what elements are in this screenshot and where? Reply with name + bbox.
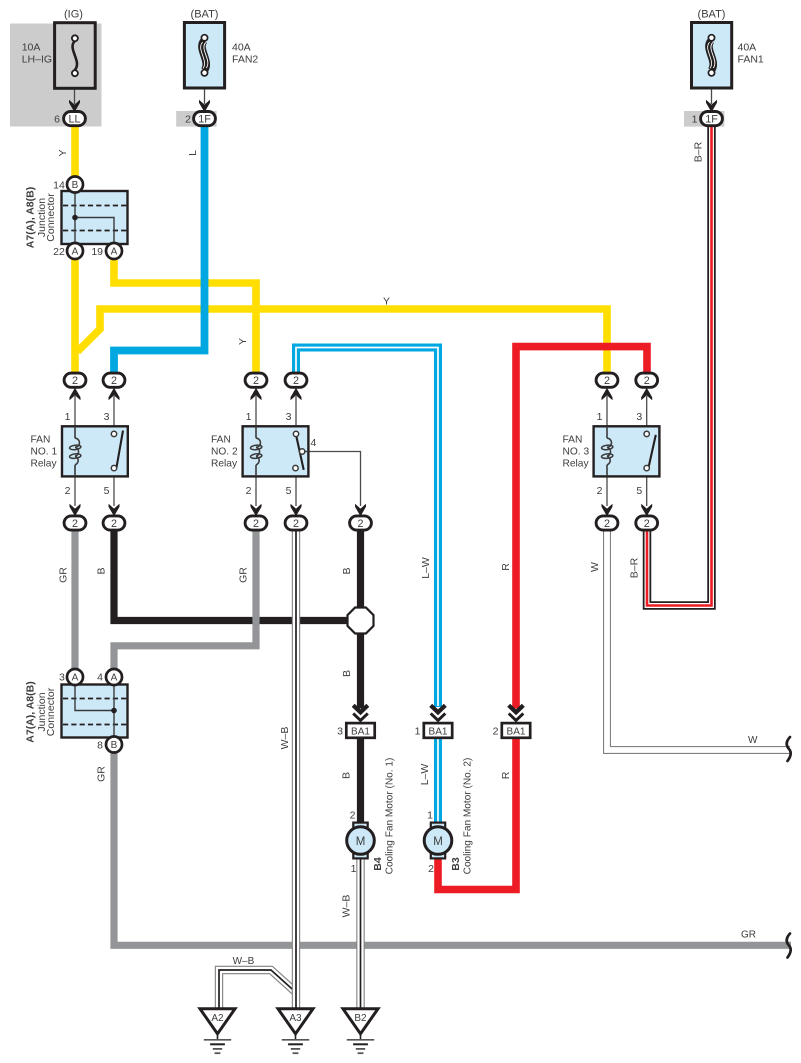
svg-text:BA1: BA1 bbox=[351, 727, 370, 738]
svg-text:B: B bbox=[72, 180, 79, 191]
svg-text:GR: GR bbox=[741, 930, 756, 941]
svg-text:40A: 40A bbox=[738, 42, 757, 54]
svg-text:Connector: Connector bbox=[45, 687, 57, 736]
svg-text:14: 14 bbox=[53, 180, 65, 192]
svg-text:1F: 1F bbox=[198, 113, 211, 125]
svg-text:W–B: W–B bbox=[341, 895, 353, 918]
svg-text:R: R bbox=[500, 563, 512, 571]
svg-text:5: 5 bbox=[286, 485, 292, 497]
svg-text:B2: B2 bbox=[354, 1013, 367, 1024]
svg-text:GR: GR bbox=[58, 567, 70, 583]
svg-text:5: 5 bbox=[104, 485, 110, 497]
svg-text:NO. 2: NO. 2 bbox=[211, 447, 238, 458]
svg-text:FAN: FAN bbox=[563, 435, 583, 446]
svg-text:1: 1 bbox=[65, 411, 71, 423]
svg-text:19: 19 bbox=[91, 246, 103, 258]
svg-text:W–B: W–B bbox=[279, 727, 291, 750]
svg-text:2: 2 bbox=[604, 375, 610, 387]
svg-text:M: M bbox=[433, 836, 443, 848]
svg-text:L–W: L–W bbox=[419, 764, 431, 786]
svg-text:2: 2 bbox=[65, 485, 71, 497]
svg-text:Cooling Fan Motor (No. 1): Cooling Fan Motor (No. 1) bbox=[385, 758, 396, 875]
svg-text:2: 2 bbox=[111, 375, 117, 387]
svg-text:A7(A), A8(B): A7(A), A8(B) bbox=[25, 187, 37, 248]
svg-text:W: W bbox=[589, 562, 601, 572]
svg-text:4: 4 bbox=[311, 437, 317, 449]
svg-text:FAN2: FAN2 bbox=[232, 53, 258, 65]
svg-text:1F: 1F bbox=[705, 113, 718, 125]
svg-text:A2: A2 bbox=[211, 1013, 224, 1024]
svg-text:BA1: BA1 bbox=[507, 727, 526, 738]
svg-text:A: A bbox=[111, 673, 118, 684]
svg-text:GR: GR bbox=[96, 766, 108, 782]
svg-text:Relay: Relay bbox=[31, 459, 58, 470]
svg-text:NO. 1: NO. 1 bbox=[31, 447, 58, 458]
svg-text:B: B bbox=[341, 772, 353, 779]
svg-text:2: 2 bbox=[72, 518, 78, 530]
svg-text:B3: B3 bbox=[450, 857, 462, 871]
svg-text:NO. 3: NO. 3 bbox=[563, 447, 590, 458]
svg-text:6: 6 bbox=[54, 114, 60, 126]
svg-text:2: 2 bbox=[644, 375, 650, 387]
svg-text:A7(A), A8(B): A7(A), A8(B) bbox=[25, 681, 37, 742]
svg-text:8: 8 bbox=[97, 740, 103, 752]
svg-text:A: A bbox=[72, 673, 79, 684]
svg-text:GR: GR bbox=[238, 567, 250, 583]
svg-text:3: 3 bbox=[59, 672, 65, 684]
svg-text:Connector: Connector bbox=[45, 193, 57, 242]
svg-text:1: 1 bbox=[597, 411, 603, 423]
svg-text:A3: A3 bbox=[289, 1013, 302, 1024]
svg-text:2: 2 bbox=[350, 810, 356, 822]
svg-text:(IG): (IG) bbox=[64, 9, 83, 21]
svg-text:2: 2 bbox=[253, 375, 259, 387]
svg-text:2: 2 bbox=[357, 518, 363, 530]
svg-text:Y: Y bbox=[383, 296, 390, 308]
svg-text:A: A bbox=[111, 247, 118, 258]
svg-text:2: 2 bbox=[111, 518, 117, 530]
svg-text:(BAT): (BAT) bbox=[191, 9, 219, 21]
svg-text:3: 3 bbox=[337, 726, 343, 738]
svg-text:3: 3 bbox=[104, 411, 110, 423]
svg-text:B: B bbox=[111, 740, 118, 751]
svg-text:FAN: FAN bbox=[211, 435, 231, 446]
svg-text:B: B bbox=[341, 670, 353, 677]
svg-text:LL: LL bbox=[68, 113, 80, 125]
svg-text:LH–IG: LH–IG bbox=[22, 53, 52, 65]
svg-text:1: 1 bbox=[351, 863, 357, 875]
svg-text:2: 2 bbox=[644, 518, 650, 530]
svg-text:2: 2 bbox=[428, 863, 434, 875]
svg-text:W: W bbox=[748, 735, 758, 746]
svg-text:FAN: FAN bbox=[31, 435, 51, 446]
svg-text:1: 1 bbox=[427, 810, 433, 822]
svg-text:3: 3 bbox=[636, 411, 642, 423]
svg-text:2: 2 bbox=[293, 518, 299, 530]
svg-text:L–W: L–W bbox=[420, 557, 432, 579]
svg-text:10A: 10A bbox=[22, 42, 41, 54]
svg-text:W–B: W–B bbox=[233, 956, 255, 967]
svg-text:4: 4 bbox=[97, 672, 103, 684]
svg-text:1: 1 bbox=[415, 726, 421, 738]
svg-text:2: 2 bbox=[293, 375, 299, 387]
svg-text:R: R bbox=[500, 771, 512, 779]
svg-text:2: 2 bbox=[493, 726, 499, 738]
svg-text:5: 5 bbox=[636, 485, 642, 497]
svg-text:B–R: B–R bbox=[693, 141, 705, 162]
svg-text:Relay: Relay bbox=[211, 459, 238, 470]
svg-text:A: A bbox=[72, 247, 79, 258]
svg-text:FAN1: FAN1 bbox=[738, 53, 764, 65]
svg-text:B: B bbox=[341, 567, 353, 574]
svg-text:B–R: B–R bbox=[629, 557, 641, 578]
svg-text:1: 1 bbox=[246, 411, 252, 423]
svg-text:2: 2 bbox=[185, 114, 191, 126]
svg-text:2: 2 bbox=[597, 485, 603, 497]
svg-text:L: L bbox=[187, 150, 199, 156]
svg-text:Y: Y bbox=[57, 149, 69, 156]
svg-text:Cooling Fan Motor (No. 2): Cooling Fan Motor (No. 2) bbox=[463, 758, 474, 875]
svg-text:BA1: BA1 bbox=[429, 727, 448, 738]
svg-text:2: 2 bbox=[72, 375, 78, 387]
svg-text:M: M bbox=[356, 836, 366, 848]
svg-text:40A: 40A bbox=[232, 42, 251, 54]
svg-text:(BAT): (BAT) bbox=[698, 9, 726, 21]
svg-text:2: 2 bbox=[253, 518, 259, 530]
svg-text:2: 2 bbox=[604, 518, 610, 530]
svg-text:2: 2 bbox=[246, 485, 252, 497]
svg-text:22: 22 bbox=[53, 246, 65, 258]
svg-text:1: 1 bbox=[692, 114, 698, 126]
svg-text:B4: B4 bbox=[372, 857, 384, 871]
svg-text:Relay: Relay bbox=[563, 459, 590, 470]
svg-text:3: 3 bbox=[286, 411, 292, 423]
svg-text:B: B bbox=[96, 567, 108, 574]
svg-text:Y: Y bbox=[237, 338, 249, 345]
